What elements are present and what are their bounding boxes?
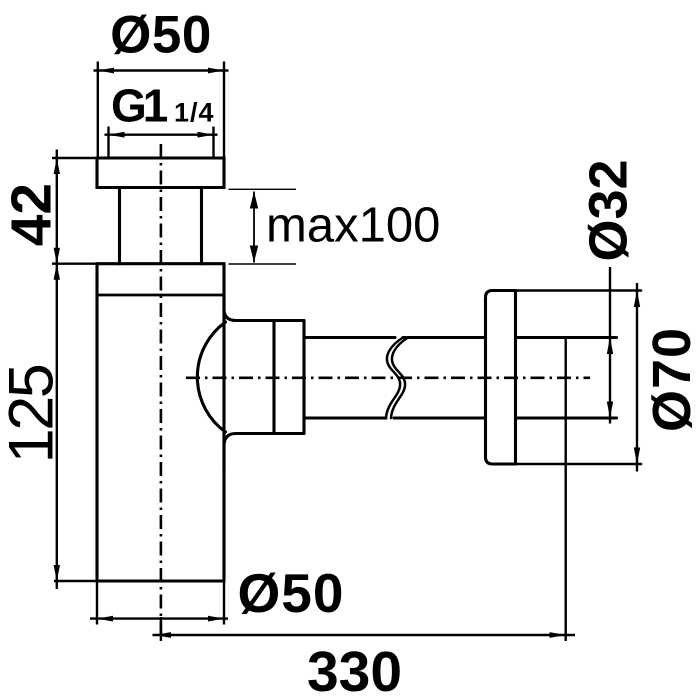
dim 125: extension at body bottom (extended left) — [54, 580, 97, 582]
dim Ø50 bottom: dimension line — [90, 617, 228, 619]
arrow Ø70 bottom — [634, 448, 640, 465]
pipe top edge (left of break) — [304, 336, 395, 339]
arrow max100 top — [250, 192, 258, 209]
outlet boss bottom edge with fillet — [224, 434, 304, 471]
arrow 42 top — [54, 158, 60, 174]
dim G1 1/4: extension lines — [109, 127, 214, 159]
arrow Ø50 bottom right — [208, 616, 224, 622]
outlet nut ring verticals — [274, 321, 304, 434]
arrow Ø50 top left — [98, 68, 114, 74]
pipe bottom edge (left of break) — [304, 416, 386, 419]
trap neck (inlet tube) — [120, 188, 202, 264]
trap body (cup) outline — [97, 264, 224, 581]
arrow Ø70 top — [634, 291, 640, 308]
svg-text:330: 330 — [307, 640, 402, 700]
dim 42 / max100: extension line (second flange top extended) — [52, 263, 97, 265]
pipe bottom edge (behind flange to pipe end) — [516, 416, 617, 419]
outlet boss dome arc — [197, 322, 225, 432]
body joint ring line — [98, 294, 223, 297]
dim Ø50 top: extension lines — [98, 62, 224, 159]
wall flange front edge — [514, 291, 517, 465]
svg-text:G1: G1 — [111, 80, 168, 132]
horizontal centerline of outlet pipe — [186, 376, 590, 379]
svg-text:1/4: 1/4 — [174, 98, 215, 128]
svg-text:42: 42 — [0, 183, 63, 246]
svg-text:125: 125 — [0, 365, 66, 463]
svg-text:max100: max100 — [266, 199, 440, 253]
pipe break S-curve right — [391, 338, 408, 419]
arrow Ø50 bottom left — [97, 616, 113, 622]
arrow Ø32 top — [607, 338, 613, 355]
arrow G1 right — [198, 132, 214, 138]
dim 330: right extension line (pipe end down) — [565, 338, 567, 642]
wall sleeve top edge / dim extension — [516, 289, 642, 292]
svg-text:Ø70: Ø70 — [642, 327, 700, 432]
dim Ø32: dimension line — [609, 267, 611, 424]
svg-text:Ø32: Ø32 — [578, 159, 638, 261]
svg-text:Ø50: Ø50 — [238, 562, 345, 624]
dim max100: vertical dimension line — [253, 192, 255, 263]
arrow 125 top — [54, 264, 60, 280]
svg-text:Ø50: Ø50 — [110, 6, 212, 65]
wall sleeve bottom edge / dim extension — [516, 463, 642, 466]
outlet boss top edge with fillet — [224, 295, 304, 321]
trap top flange outline — [97, 158, 224, 188]
dim 42: extension line top (flange top extended left) — [52, 157, 97, 159]
dim max100: thin extension line top — [229, 188, 297, 190]
dim Ø70: dimension line — [636, 283, 638, 472]
arrow 330 left — [155, 632, 172, 638]
dim 330: dimension line — [153, 634, 576, 636]
pipe bottom edge (right of break to wall flange) — [394, 416, 486, 419]
arrow G1 left — [109, 132, 125, 138]
dim 42: dimension line — [56, 150, 58, 264]
dim 330: centerline tick extension — [160, 617, 162, 641]
arrow max100 bottom — [250, 246, 258, 263]
arrow 330 right — [550, 632, 566, 638]
pipe top edge (behind flange to pipe end) — [516, 336, 617, 339]
dim Ø50 top: dimension line — [94, 69, 229, 71]
pipe break S-curve left — [386, 338, 403, 419]
dim max100: thin extension line bottom — [229, 263, 297, 265]
dim 125: dimension line — [56, 264, 58, 589]
pipe top edge (right of break to wall flange) — [403, 336, 486, 339]
arrow Ø50 top right — [208, 68, 224, 74]
dim Ø50 bottom: extension lines (body edges extended down) — [97, 581, 224, 625]
dim G1 1/4: dimension line — [105, 133, 218, 135]
wall flange rounded plate — [486, 291, 516, 465]
arrow 125 bottom — [54, 565, 60, 581]
vertical centerline of trap body — [160, 144, 163, 640]
arrow 42 bottom — [54, 248, 60, 264]
arrow Ø32 bottom — [607, 402, 613, 419]
